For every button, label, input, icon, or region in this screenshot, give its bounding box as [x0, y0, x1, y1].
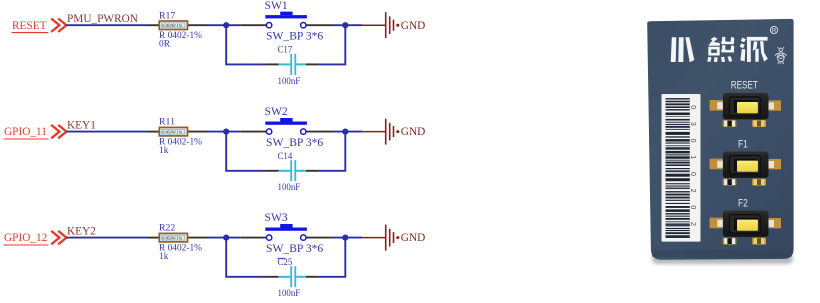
junction node A3	[223, 235, 229, 241]
bear logo icon	[775, 47, 787, 64]
svg-text:0R: 0R	[159, 40, 171, 50]
svg-text:SW1: SW1	[265, 0, 288, 12]
resistor R22	[148, 233, 209, 242]
button label F2	[738, 197, 748, 209]
svg-text:SW3: SW3	[265, 211, 288, 224]
designator SW3	[265, 211, 288, 224]
value label 0R	[159, 40, 171, 50]
svg-text:SW_BP 3*6: SW_BP 3*6	[266, 30, 323, 43]
wire	[66, 237, 148, 239]
svg-text:RESET: RESET	[731, 80, 758, 92]
svg-text:R11: R11	[159, 117, 175, 128]
switch SW3	[240, 224, 332, 240]
svg-text:100nF: 100nF	[278, 288, 301, 298]
value label 1k	[159, 252, 169, 262]
designator SW1	[265, 0, 288, 12]
ground	[361, 225, 425, 251]
svg-text:0.063W 1%: 0.063W 1%	[162, 130, 182, 135]
chip component below RESET right	[752, 120, 766, 127]
junction node B2	[342, 129, 348, 135]
value label 1k	[159, 146, 169, 156]
wire loop right	[318, 26, 345, 64]
chip component below F2 right	[752, 238, 766, 245]
designator C17	[278, 44, 293, 54]
push button F1	[710, 152, 781, 178]
wire	[66, 131, 148, 133]
port GPIO_11	[4, 125, 67, 139]
wire loop right	[318, 239, 345, 277]
svg-text:PMU_PWRON: PMU_PWRON	[67, 13, 138, 25]
wire	[208, 131, 240, 133]
port RESET	[12, 19, 67, 33]
svg-text:GND: GND	[401, 232, 425, 244]
switch SW1	[240, 12, 332, 28]
resistor R17	[148, 21, 209, 30]
svg-text:03010202: 03010202	[689, 105, 696, 239]
barcode bars	[666, 98, 690, 238]
svg-text:R17: R17	[159, 10, 175, 21]
value label SW_BP 3*6	[266, 136, 323, 149]
capacitor C17	[266, 54, 318, 75]
wire loop left	[226, 133, 266, 171]
button label RESET	[731, 80, 758, 92]
svg-text:R: R	[772, 28, 777, 34]
value label 100nF	[278, 182, 301, 192]
junction node B1	[342, 22, 348, 28]
value label 100nF	[278, 288, 301, 298]
wire	[208, 237, 240, 239]
barcode label	[662, 94, 701, 242]
wire	[66, 24, 148, 26]
value label R 0402-1%	[159, 31, 202, 41]
junction node A1	[223, 22, 229, 28]
svg-text:F2: F2	[738, 197, 748, 209]
logo text 小熊派 (drawn)	[671, 37, 768, 62]
svg-text:KEY2: KEY2	[67, 225, 96, 237]
wire loop left	[226, 26, 266, 64]
wire	[333, 131, 363, 133]
svg-text:GND: GND	[401, 20, 425, 32]
ground	[361, 12, 425, 38]
PCB board photo	[647, 19, 793, 264]
port GPIO_12	[4, 231, 67, 245]
wire	[208, 24, 240, 26]
svg-text:SW_BP 3*6: SW_BP 3*6	[266, 242, 323, 255]
svg-text:F1: F1	[738, 139, 748, 151]
value label 100nF	[278, 76, 301, 86]
chip component below F2 left	[723, 238, 737, 245]
designator R22	[159, 223, 175, 234]
svg-text:R22: R22	[159, 223, 175, 234]
designator R17	[159, 10, 175, 21]
resistor R11	[148, 127, 209, 135]
push button F2	[710, 211, 781, 237]
barcode digits 20201030	[689, 105, 696, 239]
svg-text:GPIO_11: GPIO_11	[4, 126, 47, 138]
button label F1	[738, 139, 748, 151]
svg-text:SW_BP 3*6: SW_BP 3*6	[266, 136, 323, 149]
svg-text:SW2: SW2	[265, 105, 288, 118]
wire	[333, 237, 363, 239]
svg-text:0.063W 1%: 0.063W 1%	[162, 236, 182, 241]
designator SW2	[265, 105, 288, 118]
svg-text:100nF: 100nF	[278, 76, 301, 86]
net label KEY2	[67, 225, 96, 237]
chip component below F1 right	[752, 179, 766, 186]
wire loop right	[318, 133, 345, 171]
designator R11	[159, 117, 175, 128]
svg-text:KEY1: KEY1	[67, 119, 96, 131]
value label SW_BP 3*6	[266, 242, 323, 255]
capacitor C25	[266, 266, 318, 287]
chip component below RESET left	[723, 120, 737, 127]
ground	[361, 119, 425, 145]
wire loop left	[226, 239, 266, 277]
value label R 0402-1%	[159, 137, 202, 147]
designator C25	[277, 257, 293, 267]
svg-text:C17: C17	[278, 44, 293, 54]
svg-text:GND: GND	[401, 126, 425, 138]
net label PMU_PWRON	[67, 13, 138, 25]
svg-text:C14: C14	[278, 151, 293, 161]
net label KEY1	[67, 119, 96, 131]
value label R 0402-1%	[159, 243, 202, 253]
svg-text:RESET: RESET	[12, 20, 47, 32]
capacitor C14	[266, 160, 318, 181]
pcb traces	[672, 21, 757, 76]
svg-text:0.063W 1%: 0.063W 1%	[162, 23, 182, 28]
chip component below F1 left	[723, 179, 737, 186]
svg-text:GPIO_12: GPIO_12	[4, 232, 48, 244]
junction node A2	[223, 129, 229, 135]
svg-text:1k: 1k	[159, 146, 169, 156]
push button RESET	[710, 93, 781, 119]
svg-text:100nF: 100nF	[278, 182, 301, 192]
wire	[333, 24, 363, 26]
junction node B3	[342, 235, 348, 241]
designator C14	[278, 151, 293, 161]
switch SW2	[240, 118, 332, 134]
value label SW_BP 3*6	[266, 30, 323, 43]
svg-text:1k: 1k	[159, 252, 169, 262]
registered trademark symbol	[770, 26, 777, 34]
